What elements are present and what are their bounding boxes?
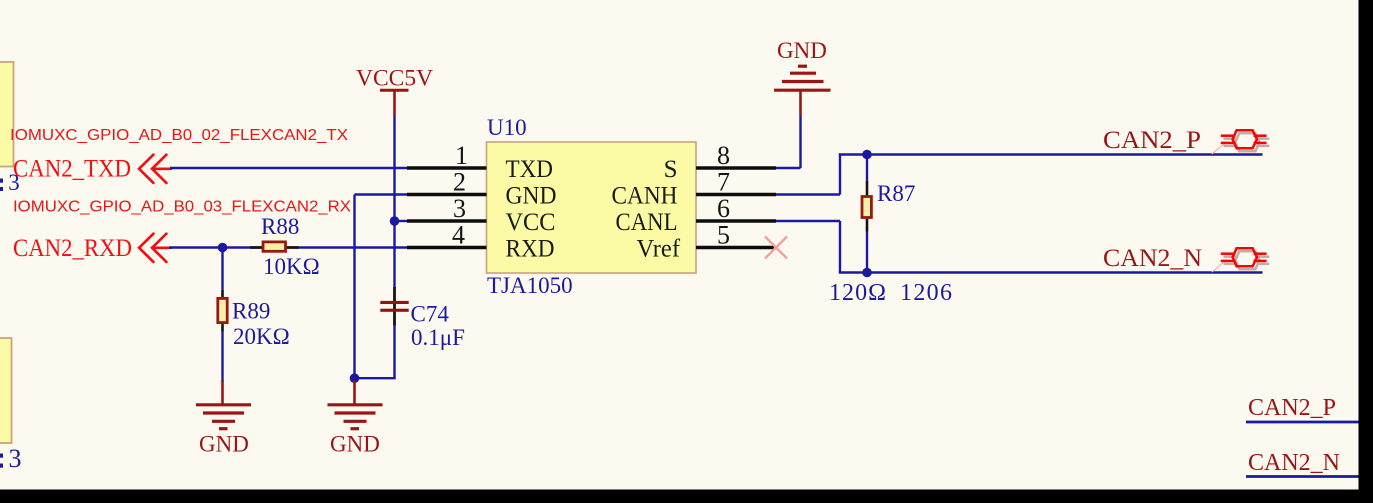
- wire pin3 stub to junction: [395, 220, 409, 222]
- wire C74 to GND rail: [393, 325, 395, 378]
- svg-text:CANL: CANL: [616, 209, 678, 236]
- wire CAN2_TXD to pin1: [170, 167, 408, 169]
- wire R88 right to pin4: [298, 246, 409, 248]
- junction node GND/C74: [350, 373, 360, 383]
- junction node VCC/pin3: [390, 216, 400, 226]
- wire corner down: [839, 221, 841, 273]
- svg-text:3: 3: [453, 194, 466, 223]
- svg-text:TXD: TXD: [506, 156, 554, 183]
- pin 2: [407, 193, 487, 196]
- svg-text:R87: R87: [877, 181, 915, 206]
- svg-text:0.1μF: 0.1μF: [411, 325, 465, 350]
- svg-text:120Ω: 120Ω: [829, 280, 886, 306]
- IC U10 body: [487, 142, 697, 273]
- svg-text:1206: 1206: [900, 280, 952, 306]
- svg-text:20KΩ: 20KΩ: [233, 324, 290, 349]
- wire CAN2_RXD to R88 left: [169, 246, 251, 248]
- svg-text:S: S: [664, 156, 678, 183]
- junction node R87 bottom: [862, 268, 872, 278]
- wire GND net: pin2 left: [355, 193, 409, 195]
- svg-text:7: 7: [717, 168, 730, 197]
- svg-text:CAN2_N: CAN2_N: [1103, 245, 1202, 272]
- svg-text:5: 5: [717, 221, 730, 250]
- wire top GND vertical: [799, 116, 801, 169]
- svg-text:CAN2_P: CAN2_P: [1248, 395, 1336, 421]
- wire CAN2_N horizontal: [839, 271, 1263, 273]
- pin 8: [696, 166, 776, 169]
- wire CAN2_P horizontal: [839, 153, 1263, 155]
- wire corner up: [839, 155, 841, 195]
- svg-text:6: 6: [717, 194, 730, 223]
- wire VCC5V vertical: [393, 116, 395, 288]
- ground symbol top (inverted): [774, 66, 831, 115]
- svg-text:C74: C74: [411, 302, 450, 327]
- svg-text:10KΩ: 10KΩ: [263, 254, 320, 279]
- pin 5: [696, 246, 776, 249]
- port arrow chevrons CAN2_TXD: [139, 155, 171, 183]
- wire pin8 to GND drop: [776, 167, 801, 169]
- svg-text:IOMUXC_GPIO_AD_B0_03_FLEXCAN2_: IOMUXC_GPIO_AD_B0_03_FLEXCAN2_RX: [13, 199, 351, 216]
- svg-text:GND: GND: [777, 38, 827, 63]
- window edge bottom: [0, 490, 1373, 503]
- junction node R87 top: [862, 150, 872, 160]
- sheet symbol (partial, bottom-left): [0, 338, 12, 443]
- svg-text:CAN2_RXD: CAN2_RXD: [13, 235, 132, 262]
- ground symbol below C74: [328, 381, 383, 429]
- svg-text:CAN2_N: CAN2_N: [1248, 450, 1340, 476]
- wire GND net horizontal to C74: [355, 377, 396, 379]
- wire CAN2_N (bottom right): [1246, 475, 1360, 478]
- pin 7: [696, 193, 776, 196]
- svg-text:RXD: RXD: [506, 235, 555, 262]
- wire R89 to GND: [221, 332, 223, 383]
- wire GND net vertical: [353, 195, 355, 379]
- svg-text:VCC5V: VCC5V: [356, 66, 433, 92]
- resistor R89 (vertical): [218, 290, 227, 332]
- sheet symbol (partial, top-left): [0, 62, 14, 167]
- svg-text:CANH: CANH: [612, 182, 678, 209]
- port arrow chevrons CAN2_RXD: [139, 234, 171, 262]
- wire CAN2_P (bottom right): [1246, 421, 1360, 424]
- svg-text:3: 3: [9, 444, 22, 473]
- svg-text:1: 1: [455, 141, 468, 170]
- svg-text:8: 8: [717, 141, 730, 170]
- resistor R88 (horizontal): [250, 242, 298, 251]
- svg-text:VCC: VCC: [506, 209, 556, 236]
- wire junction to R89: [221, 248, 223, 291]
- no connect X on pin 5: [765, 237, 787, 259]
- pin 6: [696, 219, 776, 222]
- svg-text:Vref: Vref: [637, 235, 681, 262]
- svg-text:GND: GND: [506, 182, 557, 209]
- window edge right: [1359, 0, 1373, 503]
- junction node RXD/R89: [218, 243, 228, 253]
- svg-text:U10: U10: [487, 115, 527, 140]
- svg-text:CAN2_P: CAN2_P: [1103, 127, 1201, 154]
- svg-text:IOMUXC_GPIO_AD_B0_02_FLEXCAN2_: IOMUXC_GPIO_AD_B0_02_FLEXCAN2_TX: [10, 127, 348, 144]
- wire CANH to corner: [776, 193, 840, 195]
- capacitor C74: [380, 287, 408, 326]
- svg-text:R88: R88: [261, 214, 299, 239]
- svg-text:R89: R89: [232, 299, 270, 324]
- svg-text:TJA1050: TJA1050: [487, 273, 573, 298]
- sheet entry text ": 3" bottom-left: [0, 444, 22, 473]
- svg-text:GND: GND: [330, 432, 380, 457]
- pin 4: [407, 246, 487, 249]
- svg-text:CAN2_TXD: CAN2_TXD: [13, 156, 131, 183]
- wire CANL to corner: [776, 220, 840, 222]
- svg-text:GND: GND: [199, 432, 249, 457]
- svg-text:2: 2: [453, 168, 466, 197]
- ground symbol below R89: [196, 380, 251, 429]
- pin 1: [407, 166, 487, 169]
- pin 3: [407, 219, 487, 222]
- sheet entry text ": 3" top-left: [0, 170, 20, 195]
- svg-text:4: 4: [452, 221, 465, 250]
- resistor R87 (vertical): [862, 155, 871, 273]
